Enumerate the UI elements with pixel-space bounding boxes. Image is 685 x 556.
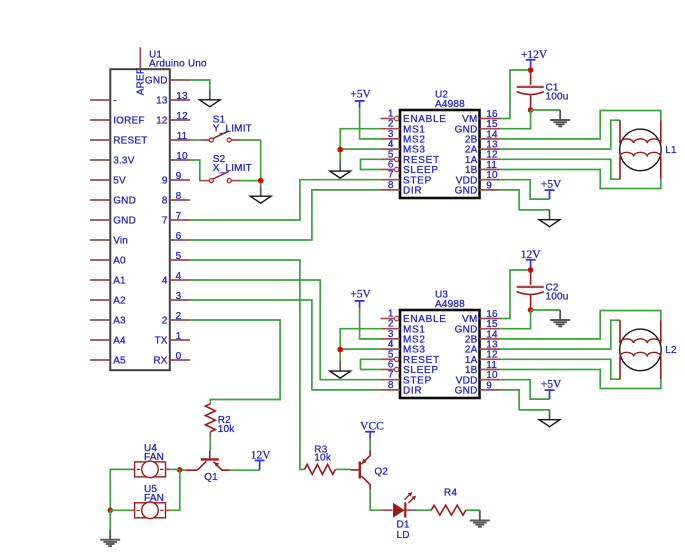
svg-text:RX: RX xyxy=(153,356,167,367)
svg-text:Q1: Q1 xyxy=(204,472,218,483)
svg-text:7: 7 xyxy=(176,211,182,222)
svg-text:A5: A5 xyxy=(113,356,126,367)
svg-text:A4988: A4988 xyxy=(435,299,465,310)
svg-text:FAN: FAN xyxy=(144,452,164,463)
svg-text:9: 9 xyxy=(162,176,168,187)
svg-text:TX: TX xyxy=(155,336,168,347)
svg-text:1: 1 xyxy=(176,331,182,342)
svg-text:3.3V: 3.3V xyxy=(113,156,135,167)
svg-text:9: 9 xyxy=(176,171,182,182)
svg-text:5: 5 xyxy=(176,251,182,262)
svg-text:R4: R4 xyxy=(444,487,457,498)
svg-text:10k: 10k xyxy=(314,453,332,464)
svg-text:A2: A2 xyxy=(113,296,126,307)
svg-text:Arduino Uno: Arduino Uno xyxy=(149,59,207,70)
svg-text:X_LIMIT: X_LIMIT xyxy=(213,163,252,174)
svg-text:L1: L1 xyxy=(665,145,677,156)
svg-text:FAN: FAN xyxy=(144,493,164,504)
svg-text:5V: 5V xyxy=(113,176,126,187)
svg-text:8: 8 xyxy=(388,380,394,391)
svg-text:6: 6 xyxy=(176,231,182,242)
svg-text:3: 3 xyxy=(176,291,182,302)
svg-text:GND: GND xyxy=(455,386,478,397)
svg-text:D1: D1 xyxy=(397,519,410,530)
svg-text:12: 12 xyxy=(156,116,168,127)
svg-text:7: 7 xyxy=(162,216,168,227)
svg-text:9: 9 xyxy=(486,380,492,391)
svg-text:+5V: +5V xyxy=(350,89,371,101)
svg-text:Q2: Q2 xyxy=(374,467,388,478)
svg-text:8: 8 xyxy=(176,191,182,202)
svg-text:IOREF: IOREF xyxy=(113,116,145,127)
svg-text:-: - xyxy=(113,96,117,107)
svg-text:RESET: RESET xyxy=(113,136,147,147)
svg-text:11: 11 xyxy=(177,131,188,142)
svg-text:4: 4 xyxy=(162,276,168,287)
svg-text:0: 0 xyxy=(176,351,182,362)
svg-text:Vin: Vin xyxy=(113,236,128,247)
svg-text:A0: A0 xyxy=(113,256,126,267)
svg-text:L2: L2 xyxy=(665,345,677,356)
svg-text:12: 12 xyxy=(176,111,188,122)
svg-text:8: 8 xyxy=(388,180,394,191)
svg-text:2: 2 xyxy=(162,316,168,327)
svg-text:4: 4 xyxy=(176,271,182,282)
svg-text:2: 2 xyxy=(176,311,182,322)
svg-text:A4988: A4988 xyxy=(435,99,465,110)
svg-text:GND: GND xyxy=(145,76,168,87)
svg-text:A1: A1 xyxy=(113,276,126,287)
svg-text:9: 9 xyxy=(486,180,492,191)
svg-text:8: 8 xyxy=(162,196,168,207)
svg-text:100u: 100u xyxy=(546,92,569,103)
svg-text:+5V: +5V xyxy=(541,179,562,191)
svg-text:10: 10 xyxy=(176,151,188,162)
svg-text:100u: 100u xyxy=(546,292,569,303)
svg-text:13: 13 xyxy=(176,91,188,102)
svg-text:LD: LD xyxy=(397,530,410,541)
svg-text:Y_LIMIT: Y_LIMIT xyxy=(213,123,252,134)
svg-text:A4: A4 xyxy=(113,336,126,347)
svg-text:GND: GND xyxy=(455,186,478,197)
svg-text:GND: GND xyxy=(113,216,136,227)
svg-text:+5V: +5V xyxy=(350,289,371,301)
svg-text:DIR: DIR xyxy=(403,386,422,397)
svg-text:DIR: DIR xyxy=(403,186,422,197)
svg-text:+5V: +5V xyxy=(541,379,562,391)
svg-text:13: 13 xyxy=(156,96,168,107)
svg-text:A3: A3 xyxy=(113,316,126,327)
svg-text:10k: 10k xyxy=(218,424,236,435)
svg-text:GND: GND xyxy=(113,196,136,207)
